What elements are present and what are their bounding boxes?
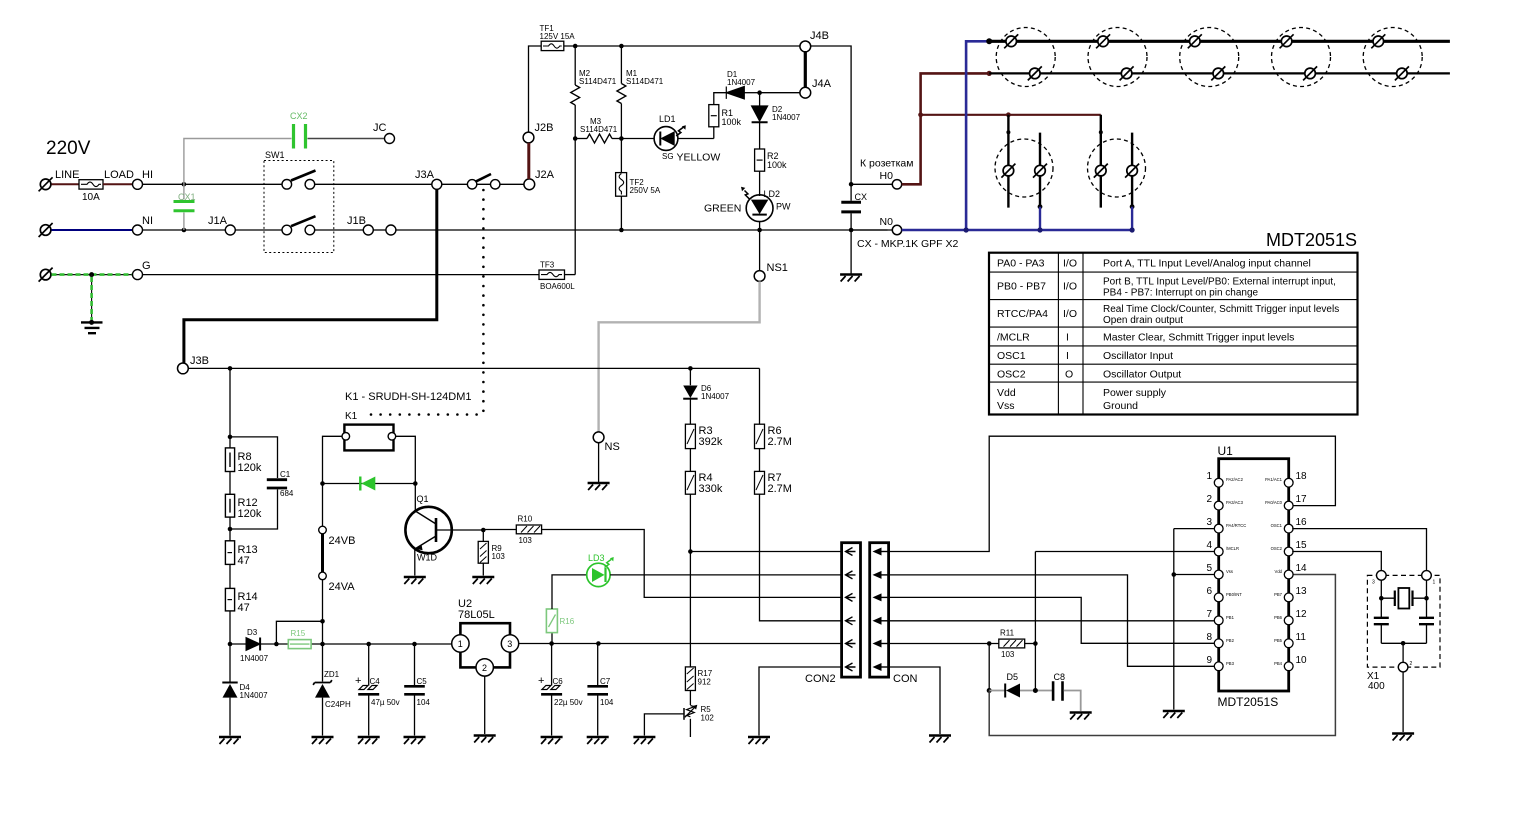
junction dot NI/CX1 xyxy=(182,228,187,233)
svg-text:PA0 - PA3: PA0 - PA3 xyxy=(997,258,1045,270)
wire J1A to SW1 xyxy=(235,229,282,231)
switch block SW1 dashed box xyxy=(264,161,334,253)
svg-text:3: 3 xyxy=(1372,580,1375,586)
svg-text:LINE: LINE xyxy=(55,169,79,181)
crystal element xyxy=(1381,580,1426,598)
junction dot left chain top xyxy=(228,366,233,371)
ground Q1 emitter xyxy=(404,577,426,584)
svg-text:+: + xyxy=(355,675,361,687)
ground NS xyxy=(588,483,610,490)
capacitor C6 xyxy=(551,644,553,686)
node N0 xyxy=(892,225,901,234)
crystal module X1 dashed box xyxy=(1367,575,1440,667)
svg-text:OSC1: OSC1 xyxy=(1271,523,1283,528)
svg-text:2: 2 xyxy=(482,663,487,673)
switched socket A right lead xyxy=(1039,133,1041,207)
svg-text:CX1: CX1 xyxy=(178,192,196,202)
wire R3-R4 xyxy=(689,449,691,472)
resistor R6 chain from J3B rail xyxy=(759,368,761,424)
svg-text:2.7M: 2.7M xyxy=(768,483,792,495)
wire neutral (blue) xyxy=(52,229,133,231)
junction dot M1 top xyxy=(619,44,624,49)
junction dot TF2/N rail xyxy=(619,228,624,233)
svg-text:J3B: J3B xyxy=(190,355,209,367)
svg-text:PB7: PB7 xyxy=(1274,592,1283,597)
wire J4B to CX column xyxy=(811,46,851,184)
load capacitor right xyxy=(1426,598,1428,643)
resistor R2 xyxy=(755,149,765,171)
wire R11 right to pin4 column xyxy=(1025,643,1036,645)
svg-text:400: 400 xyxy=(1368,681,1385,692)
svg-text:G: G xyxy=(142,260,151,272)
svg-text:Q1: Q1 xyxy=(417,494,429,504)
resistor R16 (green) xyxy=(551,633,553,644)
svg-text:NI: NI xyxy=(142,215,153,227)
junction dot C7 xyxy=(596,641,601,646)
X1 terminal 2 xyxy=(1402,643,1404,662)
capacitor CX1 xyxy=(183,184,185,230)
svg-text:Master Clear, Schmitt Trigger: Master Clear, Schmitt Trigger input leve… xyxy=(1103,332,1294,344)
diode flyback (green) xyxy=(323,483,416,485)
svg-text:Vdd: Vdd xyxy=(1275,569,1283,574)
svg-text:2.7M: 2.7M xyxy=(768,436,792,448)
junction dot R11 left xyxy=(987,641,992,646)
node NI xyxy=(133,225,143,235)
relay K1 xyxy=(344,425,393,451)
wire +5 feed rail down xyxy=(988,644,990,691)
wire R10 to CON2 row3 xyxy=(542,530,842,598)
resistor R10 xyxy=(483,529,516,531)
wire fuse to HI (dark red) xyxy=(103,183,132,185)
svg-text:78L05L: 78L05L xyxy=(458,609,495,621)
junction dot M2 top xyxy=(573,44,578,49)
svg-text:PW: PW xyxy=(776,202,791,212)
junction dot maroon top xyxy=(987,71,992,76)
svg-text:D3: D3 xyxy=(247,628,258,637)
svg-text:120k: 120k xyxy=(238,462,262,474)
wire CON row6 to ground xyxy=(889,667,940,734)
svg-text:1N4007: 1N4007 xyxy=(772,113,801,122)
junction dot D3 cathode xyxy=(274,642,279,647)
terminal NI input xyxy=(39,223,53,237)
svg-text:J1A: J1A xyxy=(208,215,228,227)
svg-text:LD1: LD1 xyxy=(659,114,676,124)
svg-text:22µ 50v: 22µ 50v xyxy=(554,698,583,707)
junction dot D6 top xyxy=(688,366,693,371)
wire Vdd loop pin14 xyxy=(989,575,1335,736)
U1 left pins 1-9 xyxy=(1214,478,1223,670)
svg-text:103: 103 xyxy=(519,536,533,545)
wire LD3 to CON2 row2 xyxy=(610,574,842,576)
X1 bottom junction xyxy=(1381,642,1426,644)
svg-text:OSC2: OSC2 xyxy=(997,369,1026,381)
switched socket B right lead xyxy=(1131,133,1133,207)
wire SW1 to J1B xyxy=(315,229,364,231)
svg-text:16: 16 xyxy=(1296,517,1308,528)
svg-text:Port B, TTL Input Level/PB0: E: Port B, TTL Input Level/PB0: External in… xyxy=(1103,277,1336,288)
node J2A xyxy=(524,179,535,190)
link J4B-J4A thick xyxy=(804,52,807,88)
junction dot Vss xyxy=(1172,572,1177,577)
varistor M2 xyxy=(574,46,576,85)
svg-text:PA0/AC0: PA0/AC0 xyxy=(1265,500,1283,505)
svg-text:684: 684 xyxy=(280,489,294,498)
wire pin4 row xyxy=(1035,551,1216,553)
junction dot maroon branch xyxy=(918,112,923,117)
svg-text:D5: D5 xyxy=(1007,672,1019,682)
svg-text:S114D471: S114D471 xyxy=(579,77,617,86)
svg-text:YELLOW: YELLOW xyxy=(677,152,721,164)
svg-text:PA4/RTCC: PA4/RTCC xyxy=(1226,523,1246,528)
svg-text:PB3: PB3 xyxy=(1226,661,1235,666)
svg-text:J2B: J2B xyxy=(535,122,554,134)
node J1A xyxy=(225,225,235,235)
U1 right pins 18-10 xyxy=(1284,478,1293,670)
svg-text:TF3: TF3 xyxy=(540,261,555,270)
svg-text:N0: N0 xyxy=(880,216,894,228)
svg-text:J1B: J1B xyxy=(347,215,366,227)
terminal G input xyxy=(39,268,53,282)
svg-text:C1: C1 xyxy=(280,470,291,479)
svg-text:Ground: Ground xyxy=(1103,400,1138,412)
wire H0 riser (maroon) xyxy=(902,73,990,184)
svg-text:R10: R10 xyxy=(518,515,533,524)
junction dot D1/D2/J4A xyxy=(757,90,762,95)
capacitor CX2 xyxy=(184,139,292,185)
socket outlet 4 xyxy=(1272,28,1331,87)
LED LD3 (green) xyxy=(552,575,587,609)
junction dot navy/N0 xyxy=(964,227,969,232)
switch SW1 top pole xyxy=(282,180,292,190)
node JC xyxy=(385,134,395,144)
junction dot H0 xyxy=(849,182,854,187)
wire R5 wiper to ground xyxy=(644,714,683,736)
resistor R13 xyxy=(225,541,234,565)
resistor R17 xyxy=(685,667,695,691)
svg-text:PB1: PB1 xyxy=(1226,615,1235,620)
capacitor C7 xyxy=(597,644,599,736)
load capacitor left xyxy=(1380,598,1382,643)
svg-text:OSC1: OSC1 xyxy=(997,350,1026,362)
ground R9 xyxy=(472,577,494,584)
resistor R12 xyxy=(225,494,234,517)
link 24VB-24VA thick xyxy=(321,534,324,572)
svg-text:I/O: I/O xyxy=(1063,281,1077,293)
svg-text:Real Time Clock/Counter, Schmi: Real Time Clock/Counter, Schmitt Trigger… xyxy=(1103,304,1339,315)
svg-text:K1: K1 xyxy=(345,411,358,422)
svg-text:1: 1 xyxy=(458,639,463,649)
resistor R1 xyxy=(713,127,715,139)
wire K1 left xyxy=(323,436,343,483)
capacitor C4 xyxy=(366,642,371,647)
diode D1 xyxy=(726,87,744,99)
svg-text:JC: JC xyxy=(373,122,387,134)
svg-text:PB0/INT: PB0/INT xyxy=(1226,592,1242,597)
diode D3 xyxy=(246,638,260,651)
junction dot top rail xyxy=(986,38,992,44)
switched socket A dashed circle xyxy=(995,139,1053,197)
svg-text:CX2: CX2 xyxy=(290,111,308,121)
fuse TF1 xyxy=(541,41,564,50)
diode D5 row (gray) xyxy=(987,688,992,693)
svg-text:CX: CX xyxy=(855,192,868,202)
svg-text:18: 18 xyxy=(1296,471,1308,482)
wire NI to J1A xyxy=(143,229,226,231)
svg-text:6: 6 xyxy=(1206,586,1212,597)
wire X1 to ground xyxy=(1402,672,1404,732)
switch SW1 bottom pole xyxy=(282,225,292,235)
svg-text:12: 12 xyxy=(1296,609,1308,620)
junction dot row1 xyxy=(688,549,693,554)
svg-text:PA2/AC2: PA2/AC2 xyxy=(1226,477,1244,482)
LED LD2 green power xyxy=(759,171,761,196)
U1 pin numbers left xyxy=(1206,471,1212,666)
switched socket B left lead xyxy=(1100,115,1102,208)
svg-text:C6: C6 xyxy=(553,677,564,686)
svg-text:47: 47 xyxy=(238,555,250,567)
connector CON xyxy=(870,543,889,677)
LED LD1 yellow xyxy=(654,127,678,151)
X1 terminal 1 xyxy=(1422,571,1432,581)
svg-text:Vss: Vss xyxy=(997,400,1015,412)
svg-text:125V 15A: 125V 15A xyxy=(540,32,576,41)
junction dot rail/ZD1 xyxy=(320,642,325,647)
varistor M3 xyxy=(575,138,587,140)
switched socket B dashed circle xyxy=(1088,139,1146,197)
svg-text:103: 103 xyxy=(1001,650,1015,659)
svg-text:I: I xyxy=(1066,350,1069,362)
fuse TF2 xyxy=(620,139,622,231)
svg-text:R16: R16 xyxy=(560,617,575,626)
svg-text:15: 15 xyxy=(1296,540,1308,551)
wire switch to J2A xyxy=(500,183,524,185)
svg-text:LD3: LD3 xyxy=(588,553,605,563)
wire SW1 to J3A xyxy=(315,183,432,185)
svg-text:LOAD: LOAD xyxy=(104,169,134,181)
svg-text:PB0 - PB7: PB0 - PB7 xyxy=(997,281,1046,293)
svg-text:NS: NS xyxy=(605,441,620,453)
node 24VA xyxy=(319,572,327,580)
svg-text:8: 8 xyxy=(1206,632,1212,643)
wire LINE to fuse (dark red) xyxy=(52,183,80,185)
wire to H0 xyxy=(851,183,892,185)
svg-text:Port A, TTL Input Level/Analog: Port A, TTL Input Level/Analog input cha… xyxy=(1103,258,1311,270)
wire to N0 xyxy=(851,229,892,231)
svg-text:/MCLR: /MCLR xyxy=(997,332,1030,344)
svg-text:J4B: J4B xyxy=(810,30,829,42)
resistor R8 xyxy=(225,448,234,472)
svg-text:24VA: 24VA xyxy=(329,581,356,593)
svg-text:104: 104 xyxy=(417,698,431,707)
svg-text:4: 4 xyxy=(1206,540,1212,551)
wire CON row2 to pin9 xyxy=(889,575,1216,666)
svg-text:1N4007: 1N4007 xyxy=(240,654,269,663)
varistor M1 xyxy=(620,46,622,84)
svg-text:I/O: I/O xyxy=(1063,308,1077,320)
svg-text:W1D: W1D xyxy=(417,553,438,563)
junction dot M2/M3 xyxy=(573,136,578,141)
wire pin15 to X1 xyxy=(1292,552,1381,571)
svg-text:PA1/AC1: PA1/AC1 xyxy=(1265,477,1283,482)
svg-text:47µ 50v: 47µ 50v xyxy=(371,698,400,707)
U1 pin numbers right xyxy=(1296,471,1308,666)
resistor R14 xyxy=(225,588,234,611)
socket outlet 3 xyxy=(1180,28,1239,87)
svg-text:9: 9 xyxy=(1206,655,1212,666)
node J3B xyxy=(178,363,189,374)
wire HI row to SW1 xyxy=(143,183,283,185)
svg-text:Oscillator Input: Oscillator Input xyxy=(1103,350,1173,362)
svg-text:SG: SG xyxy=(662,152,674,161)
svg-text:GREEN: GREEN xyxy=(704,203,741,215)
wire NS1 to NS (gray) xyxy=(599,281,760,432)
wire Vss column xyxy=(1173,529,1175,710)
wire R7 to CON2 row4 xyxy=(760,494,842,621)
svg-text:120k: 120k xyxy=(238,508,262,520)
svg-text:C4: C4 xyxy=(370,677,381,686)
svg-text:O: O xyxy=(1065,369,1073,381)
X1 terminal 3 xyxy=(1377,571,1387,581)
junction dot base node xyxy=(481,528,486,533)
svg-text:1: 1 xyxy=(1433,580,1436,586)
svg-text:C24PH: C24PH xyxy=(325,700,351,709)
wire socket second rail xyxy=(989,72,1450,74)
wire G rail to TF3 xyxy=(143,274,540,276)
wire J3B rail xyxy=(188,367,759,369)
wire CON row1 to pin17 loop xyxy=(889,436,1336,551)
svg-text:CON2: CON2 xyxy=(805,673,836,685)
wire M2 column down to TF3 xyxy=(574,139,576,275)
wire CON2 row6 to ground xyxy=(759,667,842,736)
wire socket top rail (thick) xyxy=(989,40,1450,43)
svg-text:H0: H0 xyxy=(880,170,894,182)
wire earth (green dashed) xyxy=(52,274,133,276)
svg-text:I: I xyxy=(1066,332,1069,344)
junction dot diode left xyxy=(320,481,325,486)
wire pin3 row xyxy=(1174,528,1216,530)
svg-text:K1 - SRUDH-SH-124DM1: K1 - SRUDH-SH-124DM1 xyxy=(345,391,472,403)
wire to 24VB xyxy=(322,484,324,527)
svg-text:1N4007: 1N4007 xyxy=(240,691,269,700)
junction dot R16/C6 xyxy=(549,641,554,646)
wire CON row3 to pin8 xyxy=(889,597,1216,643)
svg-text:PB4 - PB7: Interrupt on pin ch: PB4 - PB7: Interrupt on pin change xyxy=(1103,288,1259,299)
svg-text:HI: HI xyxy=(142,169,153,181)
zener ZD1 xyxy=(322,644,324,682)
junction dot diode right xyxy=(413,481,418,486)
svg-text:47: 47 xyxy=(238,602,250,614)
resistor R9 xyxy=(482,530,484,541)
node H0 xyxy=(892,180,901,189)
svg-text:SW1: SW1 xyxy=(265,150,285,160)
svg-text:PA3/AC3: PA3/AC3 xyxy=(1226,500,1244,505)
resistor R4 xyxy=(685,471,695,494)
svg-text:220V: 220V xyxy=(46,138,91,159)
wire main 24V rail xyxy=(230,643,452,645)
svg-text:10A: 10A xyxy=(82,192,100,203)
svg-text:2: 2 xyxy=(1206,494,1212,505)
svg-text:14: 14 xyxy=(1296,563,1308,574)
svg-text:/MCLR: /MCLR xyxy=(1226,546,1239,551)
junction dot earth xyxy=(89,272,94,277)
svg-text:330k: 330k xyxy=(699,483,723,495)
svg-text:J2A: J2A xyxy=(535,169,555,181)
svg-text:К розеткам: К розеткам xyxy=(860,158,913,170)
wire pin4 column xyxy=(1034,552,1036,691)
wire earth drop (green dashed) xyxy=(91,275,93,320)
node 24VB xyxy=(319,526,327,534)
svg-text:PB2: PB2 xyxy=(1226,638,1235,643)
svg-text:100k: 100k xyxy=(767,160,787,170)
junction dot M1/M3/TF2 xyxy=(619,136,624,141)
wire J3A drop (thick) xyxy=(184,189,437,363)
wire R6-R7 xyxy=(759,449,761,472)
wire NS to ground xyxy=(598,443,600,482)
wire CON row5 to R11 xyxy=(889,643,999,645)
resistor R3 xyxy=(685,424,695,448)
wire 24VA down xyxy=(322,580,324,644)
svg-text:3: 3 xyxy=(1206,517,1212,528)
node G xyxy=(133,270,143,280)
wire pin5 row xyxy=(1174,574,1216,576)
svg-text:+: + xyxy=(538,675,544,687)
ground Vss xyxy=(1163,711,1185,718)
junction dot main rail left xyxy=(228,642,233,647)
ground CX xyxy=(840,275,862,282)
trimmer R5 xyxy=(689,691,691,706)
svg-text:392k: 392k xyxy=(699,436,723,448)
socket outlet 5 xyxy=(1363,28,1422,87)
svg-text:Power supply: Power supply xyxy=(1103,387,1167,399)
node NS1 xyxy=(759,230,761,271)
connector CON2 xyxy=(842,543,861,677)
dotted link switch to K1 xyxy=(482,189,485,412)
svg-text:OSC2: OSC2 xyxy=(1271,546,1283,551)
svg-text:MDT2051S: MDT2051S xyxy=(1218,695,1279,709)
wire CX2 to JC xyxy=(308,138,385,140)
svg-text:CON: CON xyxy=(893,673,918,685)
node J4B xyxy=(800,41,811,52)
fuse 10A xyxy=(79,180,103,189)
wire CX to ground xyxy=(850,230,852,274)
diode D6 xyxy=(689,368,691,385)
svg-text:Oscillator Output: Oscillator Output xyxy=(1103,369,1181,381)
svg-text:PB5: PB5 xyxy=(1274,638,1283,643)
svg-text:Vdd: Vdd xyxy=(997,387,1016,399)
wire R15 bypass xyxy=(276,621,322,644)
svg-text:LD2: LD2 xyxy=(764,189,781,199)
svg-text:PB4: PB4 xyxy=(1274,661,1283,666)
resistor R15 (green) xyxy=(288,640,311,649)
table frame xyxy=(989,253,1358,415)
node J4A xyxy=(800,87,811,98)
node HI xyxy=(133,179,143,189)
svg-text:C8: C8 xyxy=(1054,672,1066,682)
wire K1 right xyxy=(396,436,416,511)
svg-text:912: 912 xyxy=(698,678,712,687)
svg-text:24VB: 24VB xyxy=(329,535,356,547)
socket outlet 2 xyxy=(1088,28,1147,87)
svg-text:NS1: NS1 xyxy=(767,262,788,274)
junction dot HI/CX xyxy=(182,182,187,187)
resistor R7 xyxy=(755,471,765,494)
svg-text:102: 102 xyxy=(701,714,715,723)
wire neutral rail J1B to N0 xyxy=(396,229,888,231)
svg-text:17: 17 xyxy=(1296,494,1308,505)
svg-text:C7: C7 xyxy=(600,677,611,686)
svg-text:I/O: I/O xyxy=(1063,258,1077,270)
junction dot LD2/N rail xyxy=(757,228,762,233)
